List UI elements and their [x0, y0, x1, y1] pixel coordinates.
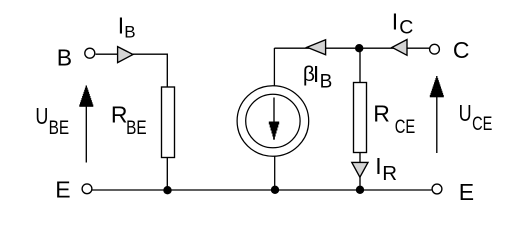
voltage arrow U_BE (up) [79, 86, 93, 163]
current arrow beta*I_B [307, 40, 326, 55]
label I_C [392, 8, 414, 38]
junction node R_CE / emitter rail [356, 186, 364, 194]
wire collector rail (top) [274, 47, 429, 49]
wire R_CE bottom through I_R arrow to emitter rail [359, 153, 361, 191]
terminal E left [82, 184, 92, 194]
svg-text:B: B [124, 23, 135, 42]
resistor R_CE [354, 83, 367, 153]
svg-text:C: C [453, 37, 470, 63]
label terminal C [453, 37, 470, 63]
label U_BE [35, 103, 69, 139]
svg-text:B: B [57, 45, 72, 71]
svg-text:I: I [118, 13, 124, 39]
svg-text:B: B [320, 71, 333, 92]
svg-text:I: I [392, 8, 398, 34]
svg-text:R: R [373, 100, 390, 126]
junction node R_CE / collector rail [355, 44, 363, 52]
label R_CE [373, 100, 415, 138]
label I_B [118, 13, 136, 42]
wire current source top to collector rail [273, 48, 275, 86]
wire emitter rail (bottom) [92, 189, 432, 191]
label beta*I_B [303, 61, 332, 92]
junction node R_BE / emitter rail [163, 186, 171, 194]
label U_CE [459, 100, 493, 135]
terminal C [430, 44, 440, 54]
svg-text:R: R [111, 102, 128, 128]
label I_R [375, 153, 397, 185]
junction node current source / emitter rail [271, 186, 279, 194]
wire R_BE bottom to emitter rail [166, 158, 168, 191]
current arrow I_R (downward) [352, 162, 368, 177]
svg-text:I: I [375, 153, 381, 179]
wire R_CE top [359, 48, 361, 83]
svg-text:CE: CE [472, 114, 492, 135]
svg-text:U: U [459, 100, 472, 126]
svg-text:I: I [313, 61, 319, 87]
terminal B [85, 48, 95, 58]
svg-text:R: R [382, 162, 397, 185]
terminal E right [432, 184, 442, 194]
svg-text:U: U [35, 103, 48, 129]
svg-text:C: C [399, 17, 413, 39]
svg-text:BE: BE [126, 118, 147, 139]
label terminal E right [459, 179, 474, 205]
wire B terminal to R_BE corner [96, 54, 168, 87]
label terminal E left [55, 176, 70, 202]
label terminal B [57, 45, 72, 71]
wire current source bottom to emitter rail [274, 157, 276, 191]
voltage arrow U_CE (up) [430, 76, 444, 153]
svg-text:BE: BE [49, 118, 70, 139]
current arrow I_B [118, 47, 133, 63]
svg-text:E: E [55, 176, 70, 202]
resistor R_BE [162, 87, 175, 158]
current arrow I_C [392, 40, 407, 56]
current source beta*I_B (double circle) [237, 86, 309, 156]
svg-text:E: E [459, 179, 474, 205]
svg-text:CE: CE [395, 117, 416, 138]
label R_BE [111, 102, 147, 140]
